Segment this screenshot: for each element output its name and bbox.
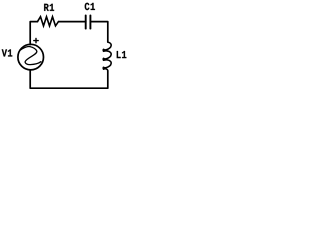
wire: resistor to capacitor xyxy=(59,21,86,23)
label C1 xyxy=(85,3,95,10)
label L1 xyxy=(117,51,127,58)
capacitor C1 left plate xyxy=(85,15,87,28)
wire: capacitor to top-right corner down to inductor xyxy=(90,22,107,42)
wire: source top to top-left corner to resistor xyxy=(30,22,37,45)
plus sign polarity xyxy=(34,38,38,42)
label R1 xyxy=(44,4,54,11)
wire: coil bottom to bottom-right corner, bottom wire, up to source xyxy=(30,70,108,88)
voltage source V1 circle xyxy=(18,44,44,70)
sine wave inside source xyxy=(20,47,41,65)
capacitor C1 right plate xyxy=(89,15,91,28)
label V1 xyxy=(2,49,13,56)
resistor R1 xyxy=(38,17,59,26)
inductor L1 coil xyxy=(103,42,111,71)
